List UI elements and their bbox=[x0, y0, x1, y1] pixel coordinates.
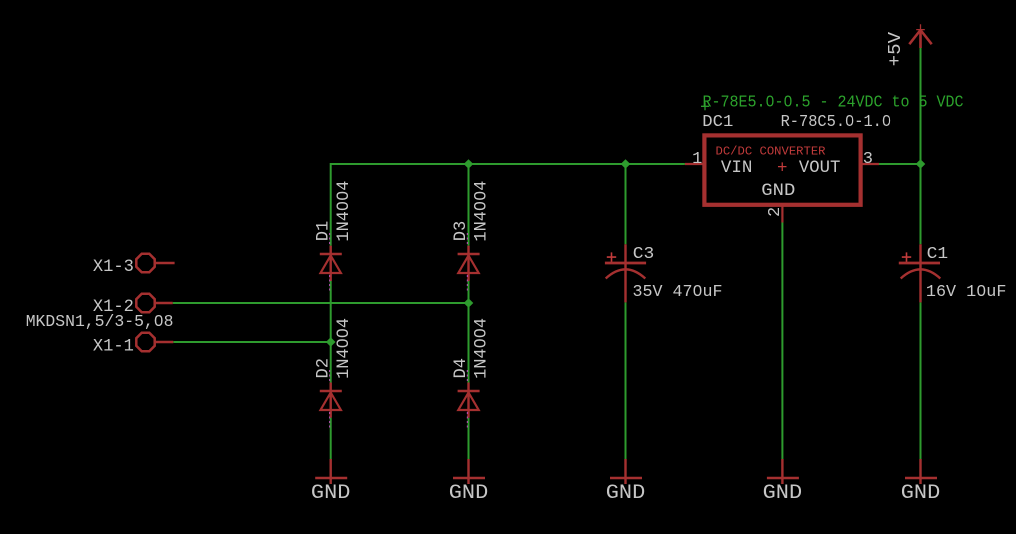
svg-text:VOUT: VOUT bbox=[799, 158, 841, 178]
wire X1-2 to D3/D4 node bbox=[173, 302, 469, 304]
label D2 bbox=[313, 358, 333, 379]
svg-text:DC1: DC1 bbox=[702, 113, 733, 132]
polarity + of C1 bbox=[902, 252, 911, 261]
svg-text:R-78E5.0-0.5 - 24VDC to 5 VDC: R-78E5.0-0.5 - 24VDC to 5 VDC bbox=[703, 94, 964, 113]
GND label under D4 bbox=[449, 482, 489, 505]
connector pin X1-1 octagon pad bbox=[136, 333, 173, 351]
connector pin X1-3 octagon pad bbox=[136, 254, 174, 272]
label X1-2 bbox=[93, 297, 134, 317]
svg-text:C3: C3 bbox=[633, 245, 655, 264]
wire +5V column down through C1 to GND bbox=[920, 48, 922, 459]
box title DC/DC CONVERTER bbox=[716, 145, 827, 159]
ground symbol under DC1 pin2 bbox=[767, 459, 799, 484]
box pin name GND bbox=[761, 181, 795, 201]
svg-text:35V 470uF: 35V 470uF bbox=[633, 283, 723, 302]
value R-78E5.0-0.5 - 24VDC to 5 VDC bbox=[703, 94, 964, 113]
+5V supply symbol bbox=[909, 24, 931, 48]
label X1-3 bbox=[93, 257, 134, 277]
svg-text:R-78C5.0-1.0: R-78C5.0-1.0 bbox=[781, 112, 892, 131]
ground symbol under C1 bbox=[905, 459, 937, 484]
ground symbol under D4 bbox=[453, 459, 485, 484]
capacitor C3 bbox=[605, 244, 646, 302]
+5V label bbox=[886, 32, 906, 67]
box pin name VOUT bbox=[799, 158, 841, 178]
svg-text:16V 10uF: 16V 10uF bbox=[926, 283, 1007, 302]
svg-text:GND: GND bbox=[311, 482, 351, 505]
capacitor C1 bbox=[899, 244, 941, 302]
value 1N4004 of D1 bbox=[334, 181, 354, 242]
svg-text:1N4004: 1N4004 bbox=[471, 181, 491, 242]
polarity + of C3 bbox=[607, 252, 616, 261]
value 16V 10uF bbox=[926, 283, 1007, 302]
DC/DC converter DC1 box bbox=[704, 135, 860, 204]
wire D3/D4 column bbox=[468, 164, 470, 459]
svg-text:1N4004: 1N4004 bbox=[334, 318, 354, 379]
label C1 bbox=[927, 245, 949, 264]
svg-text:D2: D2 bbox=[313, 358, 333, 379]
svg-text:GND: GND bbox=[449, 482, 489, 505]
junction at X1-1 / D1-D2 node bbox=[326, 337, 336, 347]
origin cross of DC1 bbox=[701, 102, 709, 110]
value 35V 470uF bbox=[633, 283, 723, 302]
ground symbol under C3 bbox=[610, 459, 642, 484]
svg-text:DC/DC CONVERTER: DC/DC CONVERTER bbox=[716, 145, 827, 159]
pin number 2 bbox=[766, 207, 785, 217]
connector pin X1-2 octagon pad bbox=[136, 294, 172, 312]
value 1N4004 of D2 bbox=[334, 318, 354, 379]
wire C3 column bbox=[625, 164, 627, 459]
GND label under D2 bbox=[311, 482, 351, 505]
svg-text:2: 2 bbox=[766, 207, 785, 217]
svg-text:D4: D4 bbox=[451, 358, 471, 379]
label C3 bbox=[633, 245, 655, 264]
diode D2 bbox=[320, 383, 342, 418]
label D3 bbox=[451, 221, 471, 242]
GND label under DC1 pin2 bbox=[763, 482, 803, 505]
label R-78C5.0-1.0 bbox=[781, 112, 892, 131]
junction at +5V / C1 node bbox=[916, 159, 926, 169]
svg-text:GND: GND bbox=[606, 482, 646, 505]
value 1N4004 of D4 bbox=[471, 318, 491, 379]
DC1 pin 3 lead bbox=[863, 163, 880, 165]
svg-text:D1: D1 bbox=[313, 221, 333, 242]
label X1-1 bbox=[93, 336, 134, 356]
wire DC1 pin2 to GND bbox=[781, 223, 783, 460]
svg-text:GND: GND bbox=[901, 482, 941, 505]
pin number 3 bbox=[863, 150, 873, 169]
svg-text:VIN: VIN bbox=[721, 158, 753, 178]
svg-text:X1-3: X1-3 bbox=[93, 257, 134, 277]
svg-text:1N4004: 1N4004 bbox=[471, 318, 491, 379]
svg-text:1N4004: 1N4004 bbox=[334, 181, 354, 242]
pin marks D2 bbox=[329, 370, 331, 430]
diode D4 bbox=[458, 383, 480, 418]
DC1 pin 2 lead bbox=[781, 207, 783, 223]
wire D1/D2 column bbox=[330, 163, 332, 459]
svg-text:+: + bbox=[777, 158, 788, 178]
label D4 bbox=[451, 358, 471, 379]
box pin name VIN bbox=[721, 158, 753, 178]
label DC1 bbox=[702, 113, 733, 132]
GND label under C3 bbox=[606, 482, 646, 505]
svg-text:C1: C1 bbox=[927, 245, 949, 264]
wire X1-1 to D1/D2 node bbox=[173, 341, 330, 343]
diode D1 bbox=[320, 246, 342, 281]
cover marks inside zero glyphs bbox=[157, 99, 983, 346]
svg-text:3: 3 bbox=[863, 150, 873, 169]
junction at X1-2 / D3-D4 node bbox=[464, 298, 474, 308]
DC1 pin 1 lead bbox=[685, 163, 703, 165]
svg-text:GND: GND bbox=[763, 482, 803, 505]
svg-text:X1-1: X1-1 bbox=[93, 336, 134, 356]
svg-text:MKDSN1,5/3-5,08: MKDSN1,5/3-5,08 bbox=[26, 313, 174, 332]
pin number 1 bbox=[692, 150, 702, 169]
svg-text:+5V: +5V bbox=[886, 32, 906, 67]
box polarity + bbox=[777, 158, 788, 178]
diode D3 bbox=[458, 246, 480, 281]
GND label under C1 bbox=[901, 482, 941, 505]
pin marks D4 bbox=[466, 370, 468, 430]
value 1N4004 of D3 bbox=[471, 181, 491, 242]
pin marks D3 bbox=[466, 233, 468, 293]
junction at D3 cathode / top rail bbox=[464, 159, 474, 169]
svg-text:1: 1 bbox=[692, 150, 702, 169]
wire top rail from D1/D3 cathodes to DC1 VIN bbox=[331, 163, 685, 165]
svg-text:D3: D3 bbox=[451, 221, 471, 242]
svg-text:GND: GND bbox=[761, 181, 795, 201]
label D1 bbox=[313, 221, 333, 242]
wire DC1 VOUT to +5V node bbox=[879, 163, 921, 165]
pin marks D1 bbox=[329, 233, 331, 293]
value MKDSN1,5/3-5,08 of X1 bbox=[26, 313, 174, 332]
ground symbol under D2 bbox=[315, 459, 347, 484]
junction at C3 / top rail bbox=[621, 159, 631, 169]
